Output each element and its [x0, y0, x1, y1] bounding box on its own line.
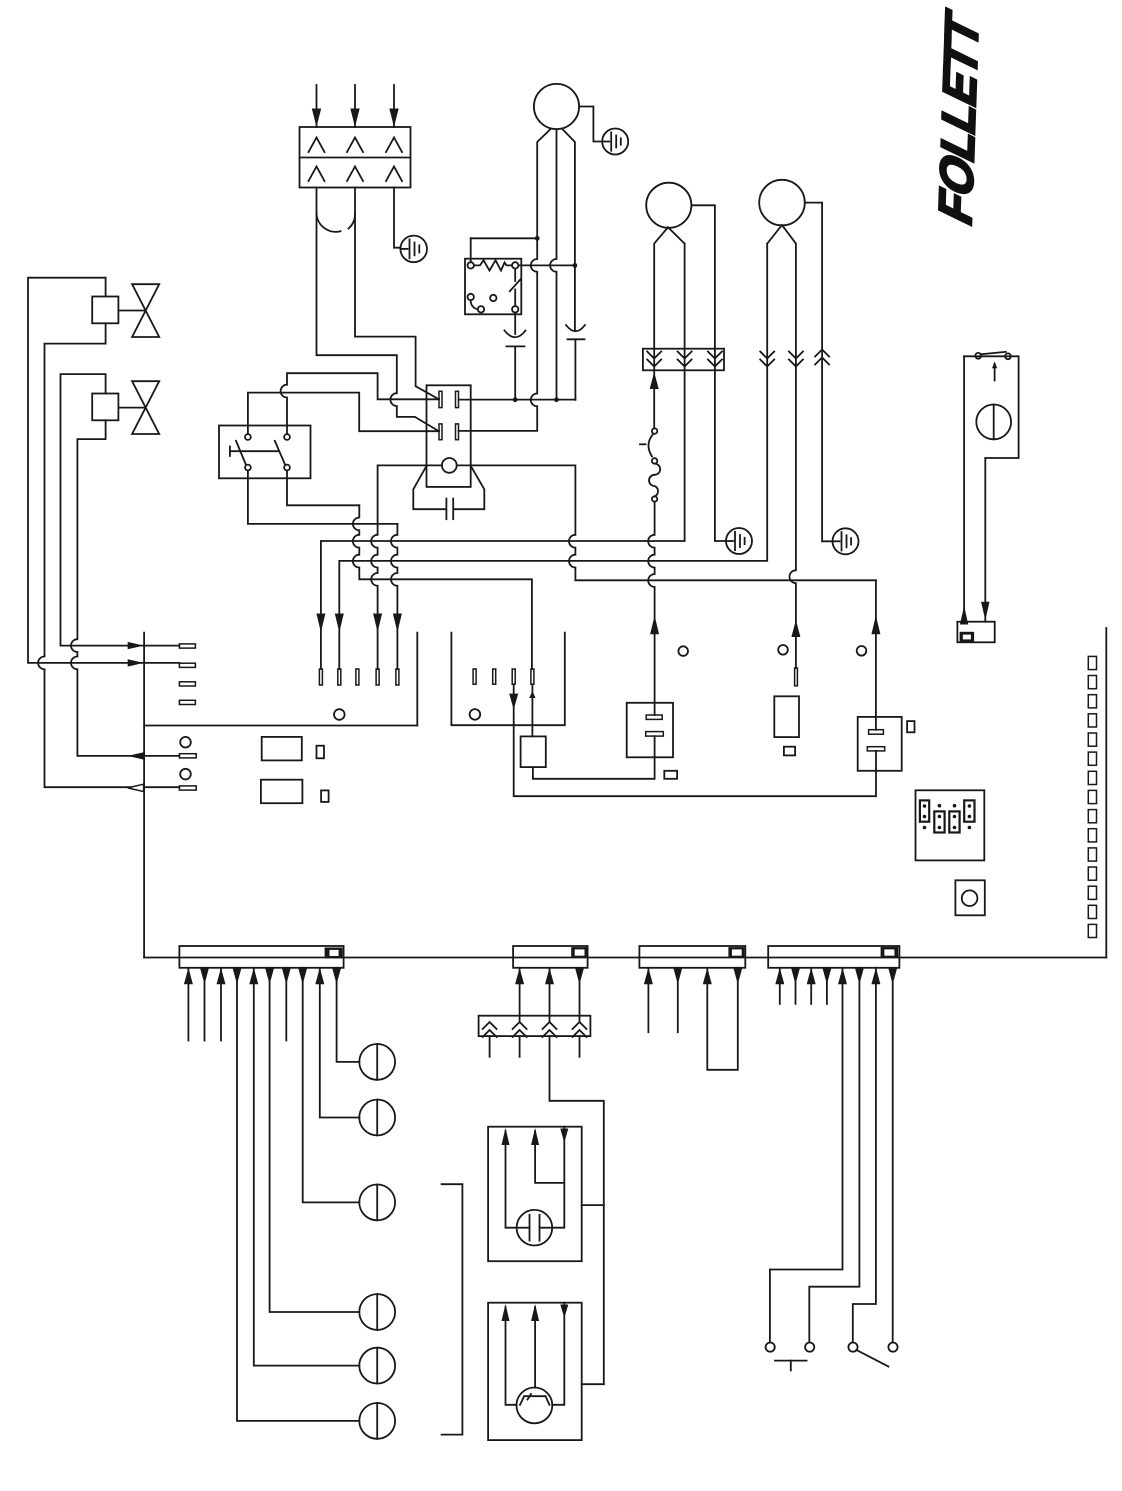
svg-text:FOLLETT: FOLLETT — [930, 5, 989, 229]
